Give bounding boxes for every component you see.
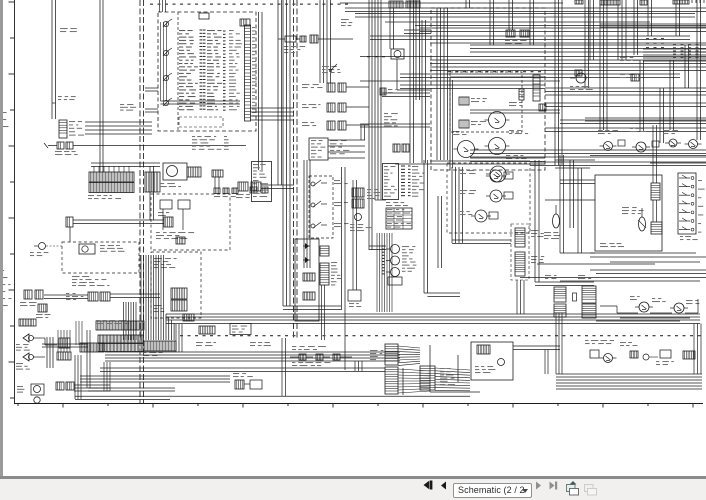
sensor G2	[391, 256, 400, 265]
wire riser x422	[421, 20, 423, 163]
switch group dashed box	[309, 176, 333, 238]
wires B1 right	[328, 139, 365, 141]
fuse row F row	[214, 188, 220, 194]
dense comb DC4 upper	[96, 321, 144, 330]
ECM wires in left b	[145, 108, 158, 110]
label top mid	[322, 66, 329, 67]
motor M1	[163, 163, 187, 180]
tr mesh v4	[684, 45, 686, 88]
wire J2 to ECM box	[73, 145, 246, 147]
toolbar icons	[0, 479, 706, 500]
duplicate window icon (disabled)	[585, 485, 597, 496]
small connector mid	[380, 88, 386, 95]
connector CC1	[238, 182, 248, 191]
br bundle left bends	[555, 313, 557, 374]
wire label block A	[646, 38, 649, 39]
br bundle	[556, 373, 702, 375]
fuse panel FP1	[383, 164, 399, 200]
ECM pin labels mid	[207, 30, 215, 31]
comb CB-C fan	[435, 368, 470, 370]
bottom ruler ticks	[17, 404, 19, 407]
stair routing wires	[617, 312, 638, 314]
relay panel dashed enclosure	[431, 8, 545, 170]
wires top joins	[404, 29, 431, 31]
sensor pins	[382, 245, 385, 247]
ECM pin column A	[200, 29, 203, 31]
connector HP	[56, 382, 64, 390]
left sensor S4	[39, 243, 46, 250]
trunk wires tr4	[430, 59, 706, 61]
br labels	[585, 340, 589, 341]
component R1 fan	[391, 49, 404, 59]
comb labels	[96, 320, 100, 321]
ECM right vertical pair	[258, 12, 260, 170]
relay row RR2	[636, 142, 646, 152]
page selector dropdown	[453, 483, 532, 498]
FP1 pins	[401, 165, 405, 167]
panel internal risers	[436, 8, 438, 160]
ladder labels	[680, 236, 683, 237]
wire risers right D	[675, 0, 677, 36]
FP1 labels	[412, 166, 418, 167]
connector J1 wires right	[85, 121, 152, 123]
ECM pin labels left	[179, 30, 185, 31]
loop riser pair	[149, 166, 151, 220]
horn wires	[74, 384, 110, 386]
relay RL1	[489, 112, 506, 129]
wire risers right F	[617, 0, 619, 60]
dashed group box G1	[151, 194, 230, 250]
switch SW1	[311, 182, 315, 186]
label box LB1	[230, 324, 251, 335]
fuse FB3	[333, 354, 340, 360]
ECM dashed enclosure	[158, 12, 256, 131]
small comb left low	[19, 319, 36, 326]
connector pair P1	[327, 83, 335, 92]
mid-right routed wires	[537, 263, 655, 265]
trunk wires tr19	[530, 161, 706, 163]
connector on riser bundle	[389, 1, 403, 8]
left connector pairs LP1	[24, 290, 32, 299]
trunk wires tr3	[470, 44, 706, 46]
VC labels	[531, 230, 538, 231]
RM stub boxes	[504, 172, 513, 179]
pressure sensor PS1	[553, 214, 560, 228]
G1 relay a	[160, 200, 172, 209]
comb small T2	[212, 170, 223, 177]
tr mesh h2	[470, 109, 560, 111]
dense comb DC1	[98, 335, 143, 343]
sensor G3	[391, 268, 400, 277]
horn alarm A	[23, 334, 29, 342]
trunk wires tr16	[400, 73, 680, 75]
bm connector A	[235, 380, 244, 389]
wire under relays	[590, 155, 706, 157]
relay RL3	[458, 141, 475, 158]
mesh verticals vF	[639, 60, 641, 132]
bl wires w5	[75, 395, 470, 397]
hanging switch	[348, 290, 361, 301]
ladder box	[678, 173, 696, 234]
corner connector row	[600, 0, 620, 5]
mid band wire pair B	[555, 159, 595, 161]
riser combs RC2	[651, 222, 662, 234]
TS1 stub wires	[93, 166, 95, 172]
margin revision marks	[1, 270, 4, 271]
wire label block B	[673, 44, 676, 45]
RM labels	[460, 170, 464, 171]
bl wires to LP	[42, 343, 88, 345]
relay BR-E	[639, 302, 649, 312]
panel box PB1	[252, 162, 272, 202]
solenoid dashed box	[62, 242, 139, 273]
ECM pin column B	[223, 30, 226, 32]
relay RL2	[489, 138, 506, 155]
switch SW3	[311, 224, 315, 228]
labels P1-P3	[302, 84, 309, 85]
relay row RR3	[669, 139, 677, 147]
trunk wires tr2	[420, 27, 706, 29]
relay RM3	[475, 210, 487, 222]
trunk wires tr20	[643, 48, 706, 50]
harness boundary dashed line left pair	[139, 0, 141, 403]
ECM top connector a	[199, 13, 209, 19]
top right corner stubs	[673, 0, 689, 4]
connector pair P2	[327, 103, 335, 112]
bl cluster wires	[46, 337, 48, 368]
label connector J2	[55, 151, 62, 152]
trunk wires tr17	[360, 80, 560, 82]
dense comb DC3	[143, 341, 176, 351]
diode D2	[303, 259, 310, 261]
trunk wires tr1	[345, 7, 706, 9]
mid risers x304	[303, 160, 305, 268]
wire number labels top row	[150, 4, 153, 5]
G2 comb b	[171, 300, 187, 311]
vertical drop bundle	[140, 255, 142, 340]
panel plug b	[459, 120, 469, 128]
label battery feed	[58, 96, 62, 97]
connector pair P3	[327, 121, 335, 130]
bl wires w4	[88, 387, 175, 389]
float switch FS1	[639, 217, 646, 231]
TS1 feed pair	[91, 162, 160, 164]
ECM connector strip J3	[245, 25, 251, 121]
comb CB-B	[385, 367, 398, 394]
trunk wires tr13	[370, 35, 690, 37]
trunk wires tr7	[470, 149, 706, 151]
wire riser x390	[389, 8, 391, 49]
relay row labels	[598, 130, 603, 131]
terminal strip TS1 dense comb	[89, 172, 134, 182]
bl wires w1	[105, 351, 400, 353]
comb CB-A	[385, 344, 398, 365]
G2 comb a	[171, 288, 187, 299]
alternator sym	[576, 73, 586, 83]
panel plug a	[459, 97, 469, 105]
wire riser x345	[344, 167, 346, 370]
label mid col	[384, 113, 388, 114]
trunk wires tr15	[360, 56, 706, 58]
tr mesh v2	[508, 0, 510, 30]
panel solid frame	[449, 78, 451, 170]
comb CB-C	[420, 366, 435, 390]
panel bottom wires	[470, 157, 545, 159]
previous page button	[441, 482, 446, 490]
connector J1 machine harness	[59, 120, 67, 138]
ECM top connector b	[240, 19, 250, 26]
G1 contents	[156, 232, 160, 233]
tr mesh v3	[669, 60, 671, 130]
mesh verticals vB	[451, 167, 453, 243]
panel fuse row	[506, 30, 515, 37]
bm trunk wires	[402, 368, 404, 395]
RM dashed box	[447, 163, 530, 233]
box right module	[595, 175, 662, 251]
ECM bottom note rows	[192, 136, 195, 137]
bl left bends	[74, 355, 76, 399]
bm label col	[370, 350, 378, 351]
junction box B1	[309, 138, 328, 160]
first page button	[424, 481, 430, 490]
component BR4	[683, 351, 695, 359]
main trunk left bends	[165, 314, 167, 340]
left ruler ticks	[9, 1, 15, 3]
loop connector right	[164, 217, 173, 227]
comb CB-B fan	[398, 369, 430, 371]
component small mid	[388, 277, 402, 285]
wires P1-P3 right	[346, 86, 369, 88]
page bottom separator	[0, 476, 706, 479]
bl wires w3	[80, 375, 230, 377]
left connector pairs LP2	[88, 292, 98, 301]
wire risers right E	[696, 0, 698, 140]
table current chart	[386, 208, 412, 229]
diode D1	[303, 245, 310, 247]
trunk wires tr6	[545, 102, 706, 104]
page frame left border	[14, 0, 16, 404]
trunk wires tr18	[545, 127, 706, 129]
mesh verticals vG	[659, 88, 661, 143]
mesh verticals vE	[529, 0, 531, 45]
ECM strip labels	[252, 27, 255, 28]
corner wires	[600, 23, 706, 25]
br wires from cluster	[513, 345, 560, 347]
wire to connector	[55, 103, 57, 119]
wire riser x411	[409, 0, 411, 163]
ECM inner dashed divider	[177, 12, 179, 131]
right edge trunk-to-bottom bends	[693, 324, 695, 375]
page frame bottom border	[14, 403, 703, 405]
loop connector left	[66, 217, 73, 227]
relay RM2	[490, 190, 502, 202]
trunk wires tr5	[545, 87, 706, 89]
bl wires w2	[100, 367, 385, 369]
component BR3	[660, 350, 671, 358]
panel label dash row	[448, 71, 451, 72]
label K1	[284, 46, 288, 47]
sensor G1	[391, 245, 400, 254]
wire riser bundle x370	[368, 0, 370, 250]
wire risers right A	[554, 0, 556, 165]
VC dashed box	[511, 224, 529, 280]
connector pair low	[393, 144, 400, 152]
panel pin strip	[533, 75, 540, 101]
mesh bends to VC	[452, 239, 511, 241]
br mid bend	[429, 345, 431, 392]
wire number labels trunk row	[180, 335, 183, 336]
connector strip CS-tall	[320, 246, 329, 256]
horn H1	[31, 384, 44, 395]
module left routes	[559, 155, 561, 253]
bl drop shorts	[57, 330, 59, 352]
sensor labels	[402, 246, 409, 247]
comb CB-A fan	[398, 346, 420, 348]
label above table	[386, 202, 390, 203]
last page button (disabled)	[550, 482, 555, 490]
ECM internal wire drops	[159, 0, 161, 12]
trunk wires tr9	[340, 2, 563, 4]
horn H2	[34, 397, 40, 403]
ECM wires in left a	[145, 87, 158, 89]
tr mesh h4	[360, 123, 430, 125]
relay RL4	[490, 166, 506, 182]
T2 drops	[214, 177, 216, 188]
ladder rungs	[679, 177, 690, 179]
label connector J1	[69, 121, 75, 122]
vertical comb VC1	[515, 228, 525, 247]
vertical comb VC2	[515, 252, 525, 276]
bl right bends	[354, 361, 356, 371]
dense comb DC2	[80, 343, 104, 352]
component top small	[575, 70, 582, 76]
riser wire labels	[367, 56, 370, 57]
terminal strip TS1b	[145, 172, 160, 192]
relay row RR1	[604, 142, 613, 151]
connector J2 plug	[57, 142, 64, 149]
battery group BG1	[352, 188, 364, 197]
harness note text	[72, 276, 80, 277]
vc right labels	[545, 275, 551, 276]
module labels	[622, 207, 629, 208]
horn alarm B	[23, 353, 29, 361]
trunk junction drops right	[534, 160, 536, 282]
labels fuses	[292, 346, 296, 347]
trunk wires tr11	[385, 21, 650, 23]
bm drop pair	[281, 338, 283, 396]
left connector pairs LP3	[38, 304, 47, 312]
P feed risers	[319, 0, 321, 83]
comb CC2	[303, 273, 315, 281]
solenoid SV1	[79, 244, 95, 254]
wire risers right B	[599, 0, 601, 130]
fuse FB1	[299, 354, 306, 360]
panel small comb a	[519, 89, 524, 100]
mid risers x570	[569, 160, 571, 228]
mid riser pair x353	[352, 180, 354, 290]
center solid box	[295, 239, 319, 321]
ECM wires to mid verticals	[251, 107, 295, 109]
mesh verticals vC	[465, 0, 467, 8]
tr mesh h3	[585, 117, 706, 119]
G2 labels	[154, 258, 162, 259]
panel small comb b	[539, 104, 546, 111]
mid wire pair riser	[423, 160, 425, 293]
new window icon	[567, 481, 579, 495]
switch SW2	[311, 203, 315, 207]
ECM pin labels right	[229, 30, 234, 31]
G1 relay b	[178, 200, 190, 209]
br bundle feeders	[544, 350, 546, 375]
dashed group box G2	[151, 252, 201, 318]
vertical combs right	[554, 287, 566, 302]
next page button (disabled)	[536, 482, 541, 490]
switch labels	[334, 180, 340, 181]
panel labels	[509, 102, 517, 103]
mesh verticals vA	[415, 0, 417, 100]
fuse FB2	[316, 354, 323, 360]
viewer toolbar	[0, 479, 706, 500]
mesh verticals vD	[584, 0, 586, 88]
table fan drop	[376, 233, 378, 312]
trunk wires tr12	[415, 25, 706, 27]
tr mesh h1	[400, 84, 545, 86]
riser combs RC1	[651, 183, 660, 200]
relay panel inner dashed box	[450, 72, 522, 132]
left gray margin strip	[0, 0, 3, 479]
ECM input switch symbols	[163, 21, 168, 26]
trunk wires tr10	[355, 13, 695, 15]
br box cluster	[471, 342, 513, 380]
wire riser x100	[99, 0, 101, 172]
trunk wires tr14	[430, 42, 706, 44]
ECM bottom dashed sub-box	[179, 117, 223, 127]
tr mesh v1	[489, 0, 491, 45]
VC strip drops	[516, 280, 518, 314]
component K1 flasher	[285, 36, 296, 42]
relay RM1	[490, 170, 502, 182]
right bundle under module	[590, 252, 696, 254]
main trunk bundle	[166, 313, 700, 315]
wires LP row	[44, 294, 88, 296]
wire battery feed verticals	[51, 0, 53, 103]
trunk wires tr8	[560, 119, 706, 121]
component BR1	[590, 350, 599, 358]
harness boundary dashed line mid pair	[293, 0, 295, 338]
label rows bl	[196, 342, 203, 343]
mid risers x283	[282, 0, 284, 306]
labels CS	[620, 57, 627, 58]
mid band wire pair A	[430, 160, 530, 162]
small comb T3	[199, 326, 215, 334]
component BR2	[630, 351, 638, 358]
loop drop	[69, 227, 71, 242]
mid riser x438	[437, 196, 439, 268]
wire risers right C	[647, 0, 649, 36]
label left margin note	[60, 28, 68, 29]
relay row RR4	[689, 140, 698, 149]
relay BR-F	[674, 303, 684, 313]
label TS1	[88, 195, 94, 196]
